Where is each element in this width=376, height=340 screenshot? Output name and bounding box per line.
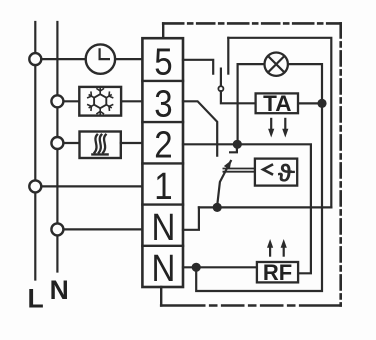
wire clock to terminal 5 [116, 58, 142, 60]
wire N to terminal N1 [64, 228, 143, 230]
wire block top to frame [162, 23, 164, 38]
switch S2 blade arrow [224, 160, 232, 169]
wire switch S1 right stub [227, 38, 229, 74]
thermostat box [255, 159, 297, 186]
wire terminal 2 row to RF loop [183, 144, 311, 273]
thermostat theta label [278, 164, 292, 182]
wire contact stub from row2 [230, 144, 237, 152]
junction switch pivot [213, 203, 222, 212]
svg-text:TA: TA [263, 91, 291, 116]
svg-text:2: 2 [154, 123, 172, 166]
wire N line [56, 22, 58, 272]
thermostat less-than symbol [263, 165, 272, 174]
cooling device box [79, 87, 121, 116]
wire terminal 3 to contact stub [183, 101, 217, 155]
switch S2 blade [217, 161, 231, 206]
wire N to heating box [64, 142, 80, 144]
thermostat linkage [223, 169, 255, 172]
lamp symbol [265, 52, 288, 75]
wire heating box to terminal 2 [121, 142, 143, 144]
svg-text:N: N [151, 247, 175, 290]
wire lamp right to N return [196, 64, 322, 291]
junction row2-lamp [233, 140, 242, 149]
clock timer symbol [86, 44, 115, 73]
heating device box [80, 132, 121, 159]
svg-text:RF: RF [263, 260, 292, 285]
RF radio arrows [267, 239, 287, 256]
RF box [257, 262, 298, 282]
heating symbol [92, 135, 107, 155]
node N-to-N1 [51, 223, 63, 235]
node N-to-heat [51, 137, 63, 149]
wire terminal N2 to RF [183, 266, 257, 268]
snowflake symbol [88, 89, 113, 114]
wire terminal 5 to switch contact [183, 60, 213, 74]
wire loop top-right [228, 38, 331, 208]
frame dash-dot boundary [163, 22, 341, 25]
wire L line [34, 22, 36, 280]
node N-to-cool [51, 95, 63, 107]
wire L to clock [42, 58, 85, 60]
node L-to-clock [29, 53, 41, 65]
svg-text:3: 3 [154, 82, 172, 125]
wire N to cooling box [64, 100, 80, 102]
wire L to terminal 1 [42, 185, 143, 187]
TA radio arrows [268, 119, 288, 138]
svg-text:5: 5 [154, 40, 172, 83]
node L-to-1 [29, 180, 41, 192]
wire horizontal 207 [199, 206, 331, 208]
switch S1 blade [220, 69, 222, 87]
svg-text:L: L [28, 283, 44, 313]
TA box [256, 93, 298, 113]
svg-text:1: 1 [154, 165, 172, 208]
terminal block [142, 38, 183, 287]
wire lamp left vertical [238, 64, 264, 144]
svg-text:N: N [151, 206, 175, 249]
junction N2 [192, 263, 201, 272]
svg-text:N: N [50, 275, 69, 305]
wire TA right [298, 102, 322, 104]
junction TA-N [317, 99, 326, 108]
wire block bottom to frame [160, 287, 162, 306]
wire terminal N1 to pivot [183, 207, 199, 229]
switch S1 contact [218, 86, 223, 91]
wire cooling box to terminal 3 [121, 100, 142, 102]
wire switch S1 to TA [221, 91, 256, 103]
